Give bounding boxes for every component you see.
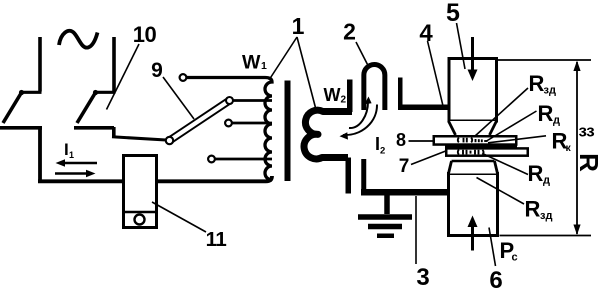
svg-text:1: 1 [69, 150, 74, 160]
svg-text:6: 6 [489, 267, 502, 294]
svg-text:зд: зд [540, 210, 552, 222]
svg-text:д: д [553, 115, 560, 127]
svg-text:R: R [528, 161, 544, 186]
svg-text:д: д [543, 175, 550, 187]
svg-text:9: 9 [151, 59, 163, 82]
svg-text:R: R [525, 197, 541, 222]
svg-text:2: 2 [343, 19, 356, 45]
svg-text:7: 7 [399, 156, 410, 177]
svg-text:R: R [529, 71, 545, 96]
svg-text:1: 1 [261, 60, 267, 72]
svg-text:W: W [324, 85, 341, 105]
svg-text:11: 11 [206, 228, 227, 251]
svg-text:зз: зз [579, 122, 595, 141]
svg-text:зд: зд [544, 85, 556, 97]
svg-text:R: R [538, 101, 554, 126]
svg-text:8: 8 [396, 130, 406, 150]
svg-text:10: 10 [133, 22, 157, 47]
svg-text:4: 4 [419, 20, 433, 47]
svg-text:2: 2 [380, 146, 385, 157]
svg-text:5: 5 [446, 0, 460, 27]
svg-text:с: с [512, 252, 518, 264]
svg-text:к: к [566, 142, 572, 154]
svg-text:W: W [242, 52, 261, 74]
svg-text:3: 3 [416, 264, 429, 291]
svg-text:2: 2 [341, 95, 347, 106]
svg-text:R: R [574, 153, 600, 172]
svg-text:1: 1 [292, 13, 305, 39]
